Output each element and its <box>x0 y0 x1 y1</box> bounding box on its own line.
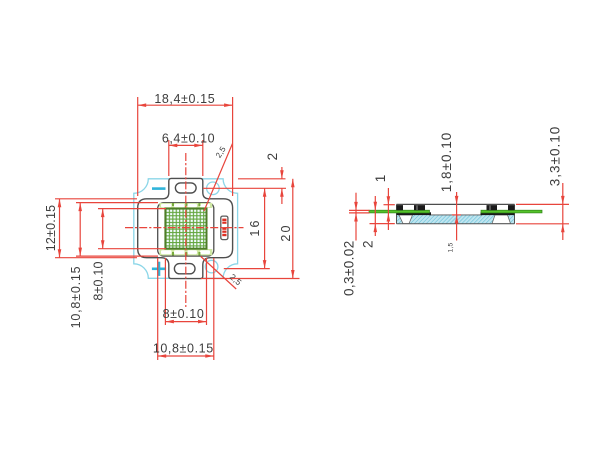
top band ticks <box>172 203 200 206</box>
substrate bar left <box>397 212 432 215</box>
svg-text:8±0.10: 8±0.10 <box>92 261 106 300</box>
dim 12 extension bottom <box>55 257 137 259</box>
bottom tab oval hole <box>174 264 195 274</box>
bottom extension ring left <box>157 258 159 360</box>
dim 8 bottom line <box>165 321 206 323</box>
LED chip grid <box>165 209 206 249</box>
svg-text:2,5: 2,5 <box>228 272 244 288</box>
side: dim 1,8 tick <box>452 214 461 216</box>
hole centre extension right <box>203 187 286 189</box>
anode plus mark <box>152 268 166 271</box>
dim 10,8 bottom line <box>158 355 214 357</box>
top tab oval hole <box>175 183 196 193</box>
vertical centreline <box>185 153 187 307</box>
svg-text:18,4±0.15: 18,4±0.15 <box>154 92 215 106</box>
side: dim 3,3 line <box>562 183 564 240</box>
top cover line <box>397 203 515 205</box>
svg-text:2: 2 <box>265 153 280 161</box>
lead right green <box>481 210 542 213</box>
dim 12 line <box>59 199 61 258</box>
bottom electrode band <box>159 249 212 255</box>
svg-text:10,8±0.15: 10,8±0.15 <box>153 342 214 356</box>
svg-text:2,5: 2,5 <box>214 145 228 160</box>
leader 2,5 bottom <box>201 257 236 290</box>
top edge extension right <box>238 178 286 180</box>
dim 20 bottom extension <box>201 278 300 280</box>
dim 6,4 extension right <box>202 140 204 176</box>
substrate bar right <box>481 212 515 215</box>
plate cross-section hatched <box>397 215 515 224</box>
top band white pads <box>161 204 172 207</box>
plate left edge <box>396 204 398 223</box>
plate top edge centre <box>429 214 482 216</box>
svg-text:1,8±0.10: 1,8±0.10 <box>439 132 454 192</box>
svg-text:2: 2 <box>361 240 376 248</box>
dim 6,4 extension left <box>168 140 170 176</box>
top electrode band <box>159 203 212 208</box>
reflector ring outline <box>158 203 214 257</box>
dim 16 bottom extension <box>224 268 270 270</box>
dim 18,4 extension right <box>232 97 234 196</box>
bottom band white pads <box>161 250 172 254</box>
dim 8 extension top <box>98 208 166 210</box>
side: dim 3,3 extensions <box>516 203 569 205</box>
svg-text:1,5: 1,5 <box>448 242 455 252</box>
side: dim 1,8 line <box>456 192 458 241</box>
chip block C <box>487 205 498 210</box>
side: dim 0,3 extensions <box>349 209 370 211</box>
plate cavity wedge left <box>399 215 413 224</box>
side: dim 2 line <box>374 196 376 236</box>
svg-text:12±0.15: 12±0.15 <box>44 205 58 252</box>
chip block D <box>508 205 515 210</box>
svg-text:10,8±0.15: 10,8±0.15 <box>69 266 83 329</box>
horizontal centreline <box>125 227 244 229</box>
dim 8 extension bottom <box>98 248 166 250</box>
blue hole circle bottom-right <box>205 260 218 273</box>
dim 8 line <box>102 209 104 249</box>
svg-text:1: 1 <box>373 175 388 183</box>
chip block B <box>414 205 425 210</box>
maroon type label <box>221 216 228 240</box>
side: dim 1 line <box>387 188 389 230</box>
dim 10,8 line <box>79 203 81 257</box>
svg-text:16: 16 <box>248 218 262 236</box>
bottom extension grid right <box>206 258 208 325</box>
svg-text:0,3±0.02: 0,3±0.02 <box>342 240 357 296</box>
chip block A <box>397 205 404 210</box>
svg-text:6,4±0.10: 6,4±0.10 <box>162 131 215 145</box>
plate right edge <box>514 204 516 223</box>
side: dim 0,3 line <box>355 193 357 241</box>
dim 18,4 line <box>138 104 233 106</box>
svg-text:8±0.10: 8±0.10 <box>163 307 205 321</box>
svg-text:20: 20 <box>279 223 293 241</box>
dim 18,4 extension left <box>137 97 139 196</box>
cathode minus mark <box>152 187 166 190</box>
plate bottom edge <box>397 223 515 225</box>
lead left green <box>369 210 430 213</box>
dim 2 line <box>281 167 283 179</box>
dim 10,8 extension bottom <box>76 255 158 257</box>
dim 12 extension top <box>55 198 137 200</box>
svg-text:3,3±0.10: 3,3±0.10 <box>548 126 563 186</box>
dim 6,4 line <box>169 144 203 146</box>
bottom extension ring right <box>213 258 215 360</box>
bottom extension grid left <box>164 258 166 325</box>
metal body outline with mounting tabs <box>138 178 233 278</box>
side: dim 2 extension <box>370 223 395 225</box>
side: dim 1 extension <box>384 204 395 206</box>
dim 10,8 extension top <box>76 202 158 204</box>
bottom band ticks <box>172 252 200 256</box>
plate cavity wedge right <box>492 215 511 224</box>
blue hole circle top-right <box>207 182 220 195</box>
dim 20 line <box>292 179 294 279</box>
leader 2,5 top <box>204 144 233 212</box>
dim 16 line <box>264 188 266 268</box>
blue board outline with corner notches <box>134 179 238 278</box>
